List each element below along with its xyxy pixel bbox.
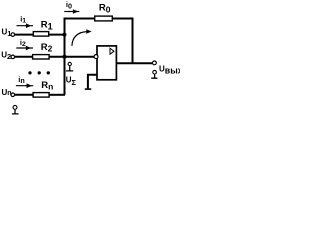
current arrow i2 bbox=[16, 46, 33, 51]
wire summing bus vertical bbox=[64, 18, 66, 95]
probe symbol output U_out bbox=[151, 70, 157, 78]
op-amp body bbox=[97, 46, 116, 80]
resistor R0 bbox=[95, 16, 113, 21]
wire op-amp output bbox=[117, 62, 152, 64]
op-amp inverting input bubble bbox=[94, 55, 98, 59]
current arrow i1 bbox=[17, 23, 34, 28]
junction node R2/bus bbox=[63, 55, 67, 59]
ellipsis dots between inputs bbox=[28, 71, 50, 74]
resistor R2 bbox=[33, 55, 50, 59]
svg-text:Rn: Rn bbox=[41, 80, 53, 92]
op-amp amplifier triangle mark bbox=[110, 48, 114, 54]
probe symbol common (bottom left) bbox=[12, 105, 19, 113]
svg-text:R1: R1 bbox=[41, 19, 53, 31]
probe symbol U_sigma bbox=[66, 62, 73, 71]
wire op-amp noninverting input to ground bbox=[88, 75, 97, 89]
ground bar under op-amp bbox=[85, 88, 91, 90]
svg-text:in: in bbox=[18, 75, 24, 85]
current arrow in bbox=[16, 83, 33, 88]
wire Rn to bus bbox=[49, 94, 65, 96]
terminal output bbox=[153, 61, 157, 65]
terminal U2 input bbox=[11, 55, 15, 59]
curved arrow into op-amp bbox=[72, 29, 92, 46]
wire output drop vertical bbox=[132, 18, 134, 64]
svg-text:U1: U1 bbox=[2, 28, 12, 39]
svg-text:R0: R0 bbox=[99, 3, 111, 15]
svg-text:R2: R2 bbox=[41, 42, 53, 54]
current arrow i0 bbox=[64, 9, 79, 14]
wire R1 to bus bbox=[49, 34, 65, 36]
resistor Rn bbox=[33, 93, 49, 98]
wire U2 terminal to R2 bbox=[15, 56, 33, 58]
svg-text:Un: Un bbox=[2, 88, 12, 97]
terminal Un input bbox=[11, 93, 15, 97]
wire top from summing bus to R0 bbox=[64, 18, 95, 20]
wire R2 through bus to op-amp bubble bbox=[49, 56, 94, 58]
wire U1 terminal to R1 bbox=[15, 34, 33, 36]
wire Un terminal to Rn bbox=[15, 94, 33, 96]
junction node R1/bus bbox=[63, 33, 67, 37]
terminal U1 input bbox=[11, 33, 15, 37]
wire from R0 to output drop corner bbox=[112, 18, 133, 20]
resistor R1 bbox=[33, 32, 48, 36]
